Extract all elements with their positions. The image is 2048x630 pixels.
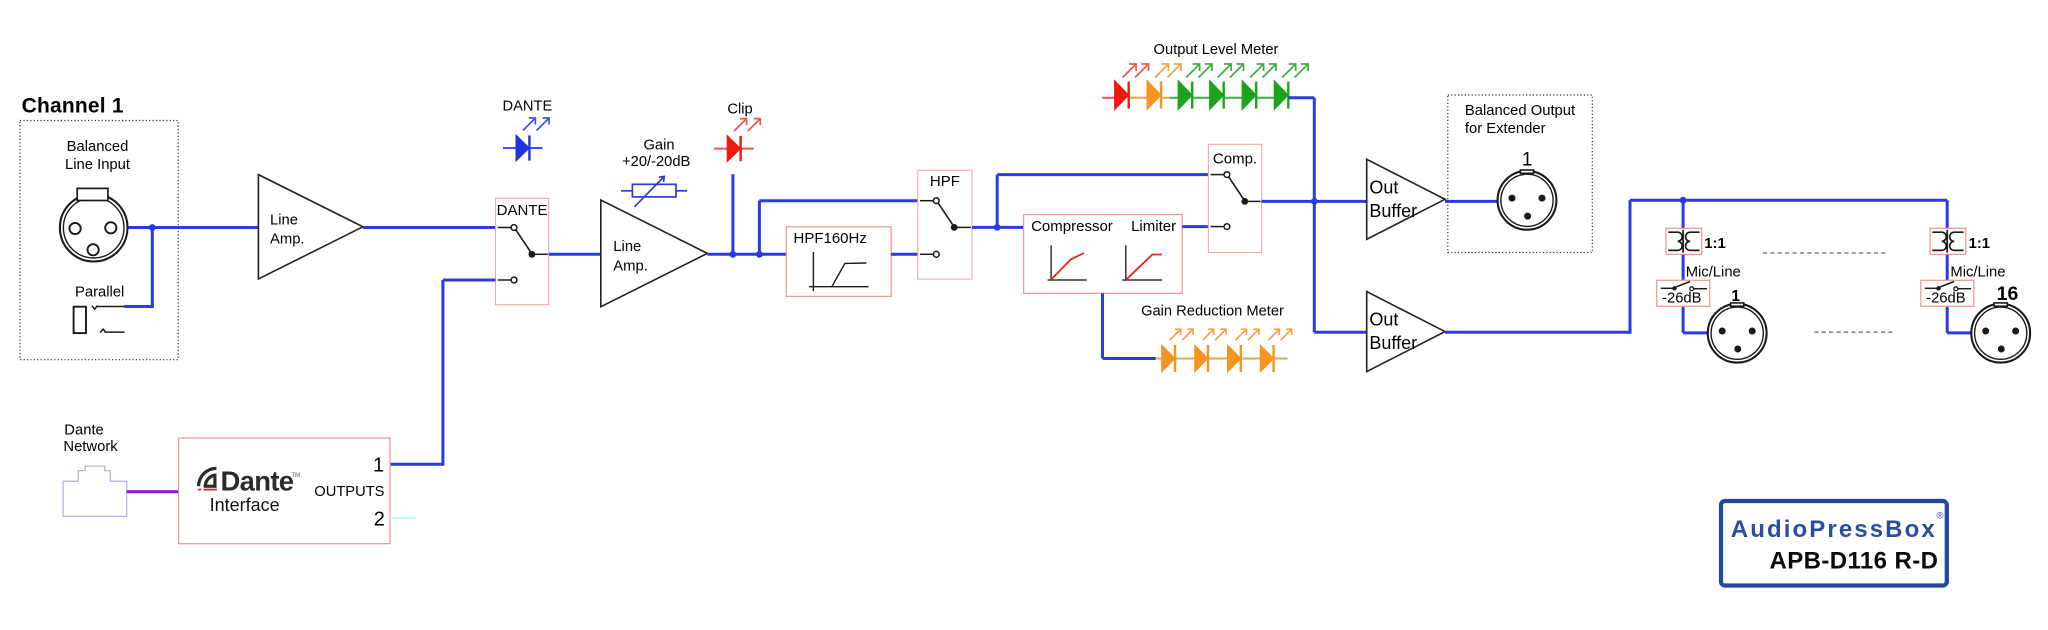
svg-text:HPF160Hz: HPF160Hz [794,230,867,247]
svg-text:Buffer: Buffer [1369,201,1417,221]
svg-text:Compressor: Compressor [1031,218,1113,235]
svg-text:Balanced: Balanced [67,139,129,155]
svg-text:Out: Out [1369,177,1398,197]
svg-text:Buffer: Buffer [1369,333,1417,353]
svg-text:Gain Reduction Meter: Gain Reduction Meter [1141,304,1284,320]
svg-text:Mic/Line: Mic/Line [1686,264,1741,280]
svg-text:1:1: 1:1 [1969,236,1990,252]
svg-text:16: 16 [1997,283,2019,305]
svg-text:Line: Line [270,212,298,228]
svg-text:Amp.: Amp. [270,232,305,248]
svg-text:Interface: Interface [210,495,280,515]
svg-text:Output Level Meter: Output Level Meter [1154,42,1279,58]
svg-text:-26dB: -26dB [1926,291,1966,307]
svg-text:Clip: Clip [727,101,752,117]
svg-text:OUTPUTS: OUTPUTS [314,484,384,500]
svg-text:TM: TM [291,472,300,479]
svg-text:Balanced Output: Balanced Output [1465,103,1575,119]
svg-text:®: ® [1937,511,1944,522]
svg-text:Network: Network [63,439,118,455]
svg-text:Amp.: Amp. [613,258,648,274]
svg-text:Mic/Line: Mic/Line [1950,264,2005,280]
svg-text:APB-D116 R-D: APB-D116 R-D [1770,547,1939,574]
svg-text:for Extender: for Extender [1465,121,1546,137]
svg-text:Limiter: Limiter [1131,218,1176,235]
svg-text:1: 1 [1522,150,1533,171]
svg-text:Dante: Dante [64,423,104,439]
svg-text:DANTE: DANTE [503,99,553,115]
svg-text:Line Input: Line Input [65,157,130,173]
svg-text:Line: Line [613,239,641,255]
svg-text:HPF: HPF [930,173,960,190]
svg-text:Comp.: Comp. [1213,150,1257,167]
svg-text:Parallel: Parallel [75,285,124,301]
svg-text:AudioPressBox: AudioPressBox [1731,516,1937,543]
svg-text:-26dB: -26dB [1662,291,1702,307]
svg-text:Gain: Gain [643,138,674,154]
svg-text:2: 2 [374,508,385,530]
svg-text:DANTE: DANTE [497,202,548,219]
svg-text:1: 1 [373,455,384,477]
svg-text:Channel 1: Channel 1 [22,94,124,117]
svg-text:Out: Out [1369,310,1398,330]
svg-text:1:1: 1:1 [1704,236,1725,252]
svg-text:Dante: Dante [221,465,294,496]
svg-text:+20/-20dB: +20/-20dB [622,154,690,170]
